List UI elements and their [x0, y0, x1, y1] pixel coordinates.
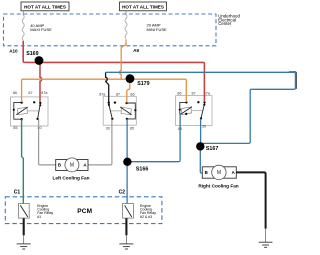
wire orange horizontal bus to relay K1 86 and relay K3 86 — [22, 79, 187, 102]
svg-text:85: 85 — [130, 126, 134, 130]
left cooling fan motor M1 — [56, 158, 88, 172]
svg-text:A10: A10 — [9, 49, 18, 54]
wire gray relay K1 30 to left fan B — [39, 119, 56, 165]
ground lead right fan — [265, 229, 267, 242]
PCM driver Q2 Engine Cooling Fan Relay #2 and #3 — [123, 204, 134, 219]
svg-text:86: 86 — [177, 91, 181, 95]
wire orange from fuse F2 A9 down with hop over blue — [120, 39, 126, 79]
ground lead C2 — [125, 235, 127, 243]
svg-text:A9: A9 — [133, 48, 139, 53]
relay K2 coil box — [121, 107, 131, 115]
relay K1 coil loop wire — [14, 103, 22, 120]
right cooling fan motor M2 — [202, 165, 236, 179]
relay K2 link — [111, 110, 122, 112]
svg-text:#2 & #3: #2 & #3 — [140, 215, 152, 219]
svg-text:B: B — [58, 163, 61, 168]
wire red branch S169 to relay K1 87a with hop over orange — [40, 63, 42, 102]
relay K3 armature — [181, 107, 192, 115]
wire red B+ feed from fuse F1 through S169 to relay K3 87a — [23, 41, 204, 102]
relay K1 link — [28, 110, 39, 112]
svg-text:C2: C2 — [119, 190, 126, 196]
relay K1 switch — [38, 103, 41, 119]
relay K1 coil box — [17, 107, 27, 115]
relay K1 armature — [16, 107, 27, 115]
svg-text:Center: Center — [218, 21, 232, 26]
svg-text:30: 30 — [106, 126, 110, 130]
fuse F1 40 AMP MAXI FUSE — [22, 15, 24, 40]
svg-text:87: 87 — [28, 91, 32, 95]
relay K3 pin dots — [185, 101, 187, 103]
relay K3 link — [192, 110, 203, 112]
svg-text:M: M — [70, 163, 74, 169]
svg-text:87a: 87a — [41, 91, 48, 95]
relay K2 armature — [120, 107, 131, 115]
svg-text:30: 30 — [202, 125, 206, 129]
svg-text:MAXI FUSE: MAXI FUSE — [30, 27, 52, 32]
Underhood Electrical Center dashed box — [4, 14, 217, 46]
svg-text:85: 85 — [13, 126, 17, 130]
svg-text:86: 86 — [130, 92, 134, 96]
svg-text:C1: C1 — [14, 190, 21, 196]
shadow edge at blue corner — [289, 72, 296, 89]
PCM dashed box — [5, 197, 162, 224]
ground G2 PCM C1 — [17, 244, 31, 249]
svg-text:S179: S179 — [137, 81, 149, 87]
relay K2 pin dots — [108, 102, 110, 104]
svg-text:86: 86 — [13, 91, 17, 95]
svg-text:M: M — [217, 170, 221, 176]
relay K2 box — [103, 96, 136, 125]
wire black PCM C2 to ground — [125, 218, 127, 235]
svg-text:HOT AT ALL TIMES: HOT AT ALL TIMES — [122, 4, 164, 9]
wire blue relay K3 85 down and left to S166 — [127, 114, 180, 162]
wire black PCM C1 to ground — [23, 218, 25, 235]
fuse F1 40A MAXI lead — [22, 11, 24, 15]
relay K3 coil box — [181, 107, 191, 115]
wire blue relay K2 85 down through S166 to PCM C2 — [126, 119, 128, 204]
svg-text:B: B — [205, 170, 208, 175]
splice S179 — [126, 74, 135, 83]
relay K1 pin dots — [20, 101, 22, 103]
svg-text:Left Cooling Fan: Left Cooling Fan — [53, 175, 90, 180]
fuse F2 20A MINI lead — [125, 11, 127, 15]
svg-text:87: 87 — [116, 92, 120, 96]
relay K1 box — [11, 97, 49, 126]
ground lead C1 — [23, 235, 25, 243]
splice S167 — [196, 142, 204, 150]
wire black right fan A to ground — [236, 172, 265, 228]
relay K2 coil tap dot — [134, 109, 136, 111]
svg-text:S166: S166 — [136, 166, 148, 172]
svg-text:Right Cooling Fan: Right Cooling Fan — [198, 183, 238, 188]
wire blue relay K3 30 through S167 to right fan B — [200, 119, 202, 174]
svg-text:S169: S169 — [26, 51, 38, 57]
fuse F2 20 AMP MINI FUSE — [125, 15, 127, 39]
relay K3 coil tap dot — [179, 109, 181, 111]
relay K1 coil tap dot — [13, 109, 15, 111]
wire gray relay K2 30 to left fan A — [88, 119, 112, 165]
svg-text:87a: 87a — [99, 92, 106, 96]
svg-text:S167: S167 — [206, 146, 218, 152]
wire green relay K1 85 down to PCM C1 — [22, 119, 24, 203]
relay K2 coil loop wire — [127, 103, 136, 119]
relay K3 box — [176, 96, 212, 126]
splice S166 — [123, 158, 131, 166]
svg-text:87: 87 — [192, 91, 196, 95]
svg-text:#1: #1 — [37, 215, 41, 219]
svg-text:HOT AT ALL TIMES: HOT AT ALL TIMES — [24, 4, 66, 9]
wire orange S179 drop to relay K2 86 — [127, 80, 130, 103]
svg-text:MINI FUSE: MINI FUSE — [147, 27, 168, 32]
wire blue top horizontal run to right side — [106, 72, 296, 143]
relay K3 switch — [201, 102, 205, 118]
ground G1 right fan — [259, 242, 273, 247]
relay K2 switch — [109, 103, 113, 119]
HOT AT ALL TIMES box 2 — [120, 2, 167, 11]
wire black relay K2 87a up to blue corner — [106, 72, 109, 102]
ground G3 PCM C2 — [119, 244, 133, 249]
splice S169 — [35, 56, 44, 65]
PCM driver Q1 Engine Cooling Fan Relay #1 — [19, 204, 30, 219]
svg-text:PCM: PCM — [77, 208, 92, 215]
relay K3 coil loop wire — [180, 102, 187, 114]
HOT AT ALL TIMES box 1 — [21, 2, 69, 11]
